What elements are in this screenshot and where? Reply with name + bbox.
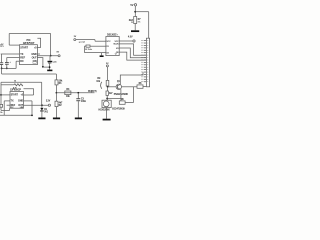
svg-text:4k7: 4k7 — [109, 92, 113, 95]
svg-text:100n: 100n — [81, 100, 87, 103]
capacitor C5 electrolytic — [48, 61, 53, 62]
svg-text:Q2: Q2 — [82, 41, 86, 43]
pin 6 of J1 — [144, 52, 146, 54]
wire — [55, 93, 57, 101]
pin wire row4 — [16, 60, 19, 62]
IC U2 DS1302 — [106, 37, 119, 56]
wire — [41, 111, 43, 117]
wire — [41, 105, 43, 108]
wire — [122, 86, 138, 88]
wire base — [108, 86, 117, 88]
wire bottom rail — [0, 114, 32, 116]
wire emitter — [120, 89, 122, 101]
wire loop row1 — [37, 38, 40, 47]
wire SCLK to J1 — [119, 44, 146, 55]
wire row3 zener net — [24, 104, 49, 106]
wire — [55, 107, 57, 118]
wire — [0, 107, 2, 110]
node terminal — [133, 40, 135, 42]
svg-text:START: START — [20, 46, 28, 49]
wire — [49, 56, 51, 61]
pin X2 of U2 — [85, 52, 106, 54]
wire — [31, 101, 33, 115]
svg-text:+: + — [9, 61, 11, 64]
ground U2 — [100, 55, 104, 57]
wire — [143, 86, 146, 88]
pin 14 of J1 — [144, 71, 146, 73]
wire CE to J1 — [119, 52, 146, 60]
wire VCC2 — [119, 40, 133, 42]
wire — [41, 82, 43, 105]
ground — [53, 118, 60, 120]
wire — [107, 85, 109, 88]
pin stub row3 — [7, 104, 10, 106]
svg-text:12F675CP: 12F675CP — [23, 41, 35, 45]
wire — [76, 39, 95, 41]
svg-text:OUT: OUT — [18, 104, 23, 107]
wire — [106, 95, 108, 100]
wire — [1, 65, 3, 69]
junction — [134, 11, 136, 13]
svg-text:TP1: TP1 — [0, 46, 4, 48]
resistor R4 — [106, 80, 109, 86]
ground — [38, 118, 45, 120]
pin wire row2 — [4, 100, 10, 102]
wire — [1, 68, 3, 74]
pin 8 of J1 — [144, 57, 146, 59]
svg-text:10k: 10k — [96, 80, 100, 83]
IC U3 PIC12F629 — [10, 92, 24, 109]
wire — [6, 58, 8, 63]
svg-text:OUT: OUT — [32, 56, 38, 59]
pin bubble — [115, 53, 116, 54]
svg-text:5V: 5V — [106, 63, 109, 65]
resistor R7 — [134, 17, 137, 24]
wire long row — [1, 81, 42, 83]
svg-text:5V: 5V — [56, 52, 59, 54]
Q1 base bar — [117, 85, 119, 89]
node 5V supply terminal — [134, 4, 136, 6]
junction — [49, 66, 51, 68]
junction — [56, 92, 58, 94]
wire — [37, 55, 58, 57]
decorative arc — [101, 82, 102, 89]
svg-text:SCLK: SCLK — [113, 44, 119, 46]
connector J1 LCD header — [146, 38, 149, 87]
wire VDD top — [9, 33, 50, 35]
junction — [41, 104, 43, 106]
pin 18 of J1 — [144, 81, 146, 83]
svg-text:5V: 5V — [130, 3, 133, 7]
wire I/O to J1 — [119, 48, 146, 58]
svg-text:1k: 1k — [0, 112, 3, 114]
wire — [132, 87, 134, 103]
ground — [131, 30, 139, 32]
junction — [0, 94, 2, 96]
wire — [15, 61, 17, 68]
wire gnd row — [2, 67, 17, 69]
svg-text:DS1302Z+: DS1302Z+ — [107, 33, 118, 36]
svg-text:LIN: LIN — [20, 107, 24, 109]
svg-text:5%: 5% — [138, 22, 141, 24]
crystal Y1 — [86, 45, 90, 47]
capacitor C1 — [5, 61, 9, 64]
node 5V test point — [58, 55, 60, 57]
wire — [134, 6, 136, 17]
pin 2 of J1 — [144, 42, 146, 44]
wire — [107, 67, 109, 81]
pin 9 of J1 — [144, 59, 146, 61]
wire — [134, 24, 136, 31]
pin wire row3 — [7, 57, 20, 59]
junction — [77, 92, 79, 94]
pin 7 of J1 — [144, 54, 146, 56]
svg-text:3V: 3V — [74, 36, 77, 38]
pin 13 of J1 — [144, 69, 146, 71]
svg-text:32.7kHz: 32.7kHz — [85, 49, 92, 51]
wire — [3, 101, 5, 115]
wire — [107, 87, 109, 91]
buzzer circle — [103, 101, 109, 107]
pin wire bottom — [9, 108, 11, 110]
svg-text:TX: TX — [20, 53, 23, 56]
wire — [8, 34, 10, 46]
buzzer LS1 — [102, 100, 111, 107]
pin 16 of J1 — [144, 76, 146, 78]
pin VCC1 of U2 — [98, 40, 106, 42]
svg-text:PA(RXT): PA(RXT) — [88, 90, 97, 93]
wire — [84, 46, 86, 53]
svg-text:+C5: +C5 — [53, 62, 58, 64]
pin 5 of J1 — [144, 49, 146, 51]
capacitor C2 — [0, 61, 3, 64]
pin wire row1 right — [24, 94, 34, 96]
wire — [0, 82, 2, 104]
pin wire row1 — [9, 44, 19, 46]
wire — [94, 40, 96, 42]
transistor Q1 body — [116, 84, 121, 89]
pin 4 of J1 — [144, 47, 146, 49]
wire — [85, 45, 87, 47]
wire — [95, 40, 98, 42]
wire signal row — [56, 92, 94, 94]
svg-text:R7: R7 — [138, 18, 142, 21]
resistor R5 — [106, 91, 108, 95]
svg-text:TX: TX — [11, 100, 14, 103]
resistor R3 — [65, 91, 71, 95]
resistor R2 — [55, 101, 58, 106]
wire — [135, 11, 149, 13]
junction — [107, 86, 109, 88]
wire — [6, 65, 8, 69]
capacitor C3 — [76, 97, 80, 100]
wire — [106, 108, 108, 119]
pin 12 of J1 — [144, 66, 146, 68]
pin wire row1 — [0, 94, 10, 96]
junction — [42, 66, 44, 68]
wire — [77, 93, 79, 99]
ground — [47, 70, 52, 72]
pin 3 of J1 — [144, 44, 146, 46]
svg-text:5V1: 5V1 — [44, 112, 49, 114]
wire — [148, 12, 150, 39]
junction — [1, 68, 3, 70]
wire — [55, 85, 57, 93]
junction — [31, 114, 33, 116]
svg-text:DC: DC — [11, 107, 14, 109]
svg-text:REF: REF — [20, 56, 25, 59]
node battery terminal B1 — [74, 39, 76, 41]
IC U1 PIC12F675 — [20, 45, 38, 65]
wire — [43, 66, 50, 68]
junction — [106, 98, 108, 100]
svg-text:GND: GND — [18, 100, 23, 103]
svg-text:VCC: VCC — [115, 41, 120, 43]
pin 15 of J1 — [144, 73, 146, 75]
ground — [75, 118, 82, 120]
wire collector to J1 — [120, 72, 143, 84]
wire — [77, 101, 79, 117]
resistor R6 — [119, 101, 125, 104]
svg-text:HCM1206X: HCM1206X — [99, 110, 111, 112]
Q1 collector stroke — [118, 84, 121, 86]
wire loop C — [24, 89, 34, 95]
svg-text:10k: 10k — [66, 95, 70, 98]
pin 17 of J1 — [144, 78, 146, 80]
wire ground bus — [2, 73, 57, 75]
wire — [1, 54, 3, 62]
pin stub — [37, 53, 40, 55]
wire — [125, 102, 133, 104]
wire — [1, 84, 14, 86]
pin X1 of U2 — [90, 45, 106, 47]
svg-text:REF: REF — [11, 104, 16, 107]
wire — [55, 74, 57, 80]
svg-text:VCC: VCC — [106, 41, 111, 43]
ground — [103, 119, 111, 121]
pin wire row2 right — [24, 100, 33, 102]
pin wire row2 — [1, 53, 20, 55]
svg-text:START: START — [11, 94, 19, 97]
svg-text:DC: DC — [20, 60, 24, 63]
wire row3 — [37, 58, 43, 67]
svg-text:BC547/2N39: BC547/2N39 — [112, 107, 125, 110]
svg-text:GND: GND — [31, 53, 37, 56]
Q1 emitter stroke — [118, 88, 121, 90]
wire — [49, 63, 51, 69]
pin 11 of J1 — [144, 64, 146, 66]
resistor R1 — [55, 80, 58, 85]
boxed pin label — [33, 60, 37, 63]
svg-text:4.5V: 4.5V — [128, 35, 133, 38]
wire — [107, 98, 121, 100]
svg-text:3.3V: 3.3V — [46, 101, 51, 103]
resistor R8 — [137, 85, 143, 88]
pin 1 of J1 — [144, 40, 146, 42]
svg-text:W: W — [131, 22, 133, 24]
junction — [50, 55, 52, 57]
node 5V terminal — [106, 65, 108, 67]
wire — [100, 53, 102, 56]
pin 10 of J1 — [144, 61, 146, 63]
resistor R10 — [0, 104, 3, 107]
wire — [50, 34, 52, 56]
junction — [6, 68, 8, 70]
node 3.3V terminal — [48, 104, 50, 106]
wire — [1, 109, 10, 111]
